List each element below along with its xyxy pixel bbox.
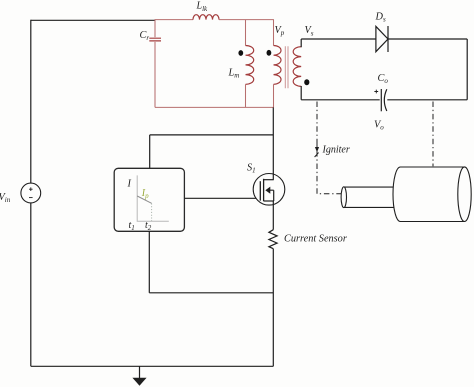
waveform ramp <box>137 196 151 203</box>
svg-text:Current Sensor: Current Sensor <box>284 234 348 245</box>
svg-text:I: I <box>127 179 132 190</box>
wire sensor to bottom <box>272 249 274 367</box>
capacitor Cr <box>149 20 161 108</box>
diode Ds <box>376 26 388 52</box>
wire gate loop left upper <box>149 135 151 168</box>
inductor Llk <box>193 15 219 20</box>
wire gate loop left lower <box>148 231 150 292</box>
igniter arrow <box>316 141 318 148</box>
lamp tube (neck) <box>341 187 397 208</box>
transformer secondary winding Vs <box>293 47 301 87</box>
dot primary polarity <box>267 50 272 56</box>
lamp body cylinder <box>393 167 471 222</box>
mosfet S1 <box>253 174 285 206</box>
transformer primary winding Vp <box>274 20 282 108</box>
wire red bottom <box>155 106 274 108</box>
ground <box>132 366 146 385</box>
igniter dash-dot line left <box>317 102 341 194</box>
waveform axes <box>137 175 169 221</box>
waveform dotted drop at t2 <box>151 204 153 222</box>
wire secondary bottom right <box>387 99 467 101</box>
dot Lm polarity <box>238 50 243 56</box>
wire input left vertical (lower) <box>30 203 32 366</box>
inductor Lm (magnetizing) <box>246 20 254 108</box>
wire gate lead <box>184 197 260 199</box>
lamp dash-dot line right <box>432 102 434 167</box>
dot secondary polarity <box>304 79 309 85</box>
wire red top left segment <box>155 19 194 21</box>
controller box (current waveform) <box>114 168 184 231</box>
wire secondary bottom left <box>301 86 380 100</box>
resistor current sensor <box>269 230 277 249</box>
wire input left vertical (upper) <box>30 20 32 184</box>
wire bottom main <box>31 365 273 367</box>
wire secondary top <box>301 39 376 47</box>
wire red top right segment <box>219 19 274 21</box>
wire source to sensor <box>272 201 274 230</box>
wire drain <box>272 107 274 179</box>
transformer core <box>285 46 288 88</box>
wire secondary right vertical <box>466 39 468 100</box>
svg-text:Igniter: Igniter <box>322 144 350 155</box>
wire secondary top right <box>388 38 467 40</box>
wire gate loop bottom <box>149 292 273 294</box>
wire gate loop top <box>150 134 274 136</box>
wire input top (black, from left corner to Cr node) <box>31 19 156 21</box>
capacitor Co <box>374 89 386 111</box>
voltage source Vin <box>21 183 41 203</box>
